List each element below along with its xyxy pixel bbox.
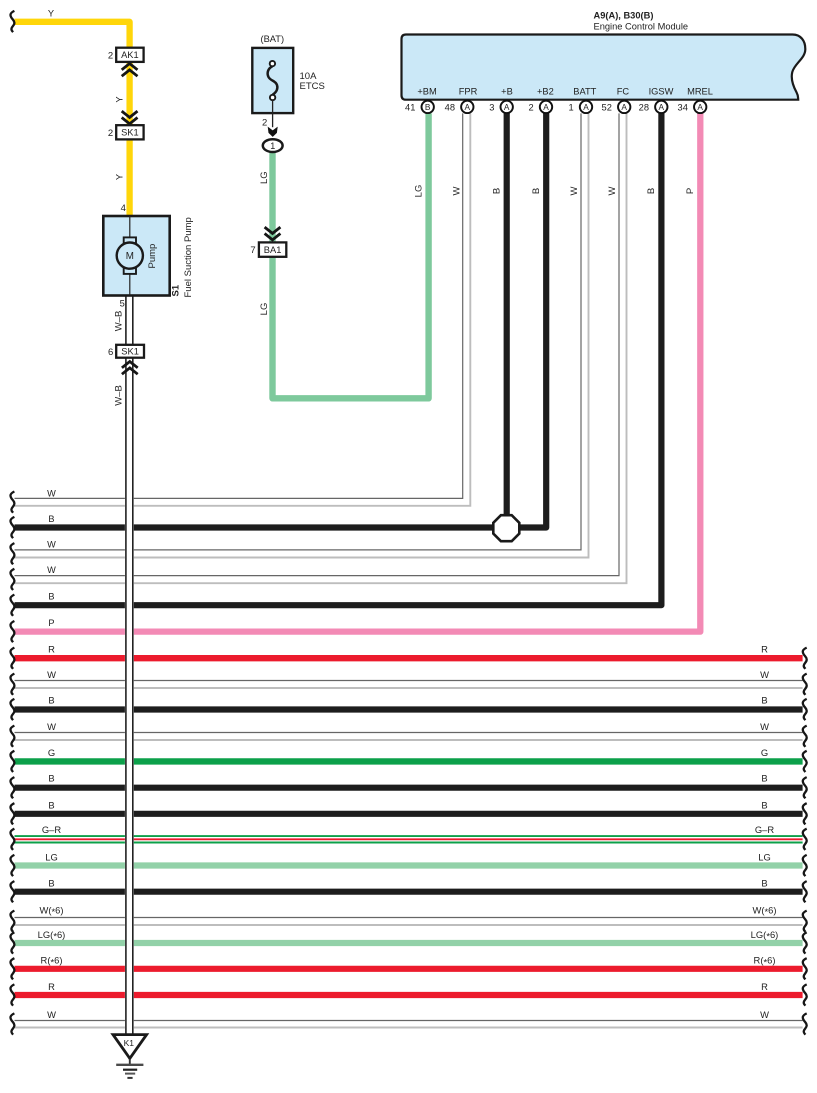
svg-text:R: R: [761, 644, 768, 655]
svg-text:B: B: [48, 800, 54, 811]
svg-text:LG(*6): LG(*6): [751, 929, 779, 942]
svg-text:2: 2: [108, 128, 113, 139]
svg-text:3: 3: [489, 102, 494, 112]
svg-text:A9(A), B30(B): A9(A), B30(B): [594, 11, 654, 21]
svg-text:+B2: +B2: [537, 87, 554, 97]
svg-text:B: B: [646, 188, 657, 194]
svg-text:W–B: W–B: [114, 385, 125, 406]
svg-text:W(*6): W(*6): [753, 904, 777, 917]
svg-text:2: 2: [108, 50, 113, 61]
svg-text:SK1: SK1: [121, 347, 139, 357]
svg-text:FPR: FPR: [459, 87, 478, 97]
svg-text:R: R: [48, 644, 55, 655]
svg-text:1: 1: [569, 102, 574, 112]
svg-text:34: 34: [678, 102, 688, 112]
svg-text:4: 4: [121, 203, 126, 214]
svg-text:W: W: [760, 721, 769, 732]
svg-text:(BAT): (BAT): [261, 34, 285, 44]
svg-text:41: 41: [405, 102, 415, 112]
svg-text:7: 7: [250, 245, 255, 256]
svg-text:B: B: [48, 514, 54, 524]
svg-text:48: 48: [445, 102, 455, 112]
svg-text:W(*6): W(*6): [40, 904, 64, 917]
svg-text:W: W: [47, 565, 56, 575]
svg-text:B: B: [761, 773, 767, 784]
svg-text:W: W: [607, 186, 618, 195]
svg-text:M: M: [126, 251, 134, 262]
svg-text:B: B: [48, 592, 54, 602]
svg-text:Y: Y: [48, 9, 54, 19]
svg-text:6: 6: [108, 347, 113, 358]
svg-text:+BM: +BM: [417, 87, 436, 97]
svg-text:R: R: [761, 981, 768, 992]
svg-text:W: W: [47, 669, 56, 680]
svg-text:B: B: [425, 102, 431, 112]
svg-text:5: 5: [120, 299, 125, 309]
svg-text:BATT: BATT: [573, 87, 596, 97]
svg-text:W: W: [760, 1009, 769, 1020]
svg-text:P: P: [685, 188, 696, 194]
svg-text:W: W: [760, 669, 769, 680]
svg-text:G: G: [48, 747, 55, 758]
svg-text:R: R: [48, 981, 55, 992]
svg-text:LG: LG: [259, 171, 270, 184]
svg-text:LG: LG: [414, 185, 425, 198]
svg-text:LG: LG: [758, 851, 771, 862]
svg-text:LG(*6): LG(*6): [38, 929, 66, 942]
svg-text:B: B: [761, 878, 767, 889]
svg-text:Fuel Suction Pump: Fuel Suction Pump: [183, 217, 194, 297]
svg-text:A: A: [543, 102, 549, 112]
svg-text:FC: FC: [617, 87, 630, 97]
svg-text:AK1: AK1: [121, 50, 139, 60]
svg-text:W: W: [47, 1009, 56, 1020]
svg-text:A: A: [697, 102, 703, 112]
svg-text:G–R: G–R: [42, 824, 62, 835]
svg-text:G–R: G–R: [755, 824, 775, 835]
svg-text:28: 28: [639, 102, 649, 112]
svg-text:A: A: [504, 102, 510, 112]
svg-text:A: A: [465, 102, 471, 112]
svg-text:B: B: [48, 878, 54, 889]
svg-text:W: W: [47, 540, 56, 550]
svg-text:B: B: [48, 695, 54, 706]
svg-text:W: W: [47, 488, 56, 498]
svg-text:W: W: [569, 186, 580, 195]
svg-text:R(*6): R(*6): [41, 955, 63, 968]
svg-text:W: W: [47, 721, 56, 732]
svg-text:W–B: W–B: [114, 311, 125, 332]
svg-text:A: A: [659, 102, 665, 112]
svg-text:R(*6): R(*6): [754, 955, 776, 968]
svg-text:LG: LG: [45, 851, 58, 862]
svg-text:B: B: [761, 800, 767, 811]
svg-text:B: B: [492, 188, 503, 194]
svg-text:Pump: Pump: [147, 244, 158, 269]
svg-text:B: B: [48, 773, 54, 784]
svg-text:B: B: [761, 695, 767, 706]
svg-text:1: 1: [270, 141, 275, 151]
svg-text:A: A: [583, 102, 589, 112]
svg-text:2: 2: [262, 117, 267, 128]
svg-text:S1: S1: [170, 284, 181, 296]
svg-text:Y: Y: [115, 174, 125, 180]
svg-text:Engine Control Module: Engine Control Module: [594, 22, 689, 32]
svg-text:MREL: MREL: [687, 87, 713, 97]
svg-text:Y: Y: [115, 96, 125, 102]
svg-text:B: B: [531, 188, 542, 194]
svg-text:SK1: SK1: [121, 128, 139, 138]
svg-text:2: 2: [529, 102, 534, 112]
svg-text:P: P: [48, 618, 54, 628]
svg-text:52: 52: [602, 102, 612, 112]
svg-text:ETCS: ETCS: [300, 81, 325, 92]
svg-text:+B: +B: [501, 87, 513, 97]
svg-text:IGSW: IGSW: [649, 87, 674, 97]
svg-text:W: W: [451, 186, 462, 195]
svg-text:G: G: [761, 747, 768, 758]
svg-text:K1: K1: [124, 1038, 135, 1048]
svg-text:LG: LG: [259, 303, 270, 316]
svg-text:BA1: BA1: [264, 245, 282, 255]
svg-text:A: A: [621, 102, 627, 112]
